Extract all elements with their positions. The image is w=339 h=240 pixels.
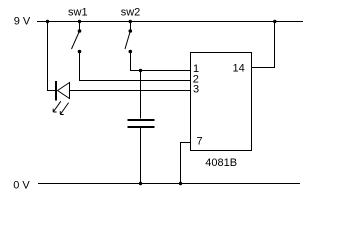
svg-text:sw2: sw2 [121,7,141,19]
wire IC pin 7 to 0V rail [181,143,191,184]
svg-text:14: 14 [233,63,245,75]
svg-text:sw1: sw1 [68,7,88,19]
capacitor bottom plate [128,126,155,128]
wire 9V rail to sw2 top contact [130,22,132,32]
wire 9V top rail [37,21,303,23]
switch sw1 bottom contact [78,50,82,54]
svg-text:0 V: 0 V [13,180,30,192]
wire sw2 to IC pin 1 [131,52,191,71]
svg-text:9 V: 9 V [14,15,31,27]
wire sw1 to IC pin 2 [80,52,191,81]
LED emission arrow 1 [53,101,61,112]
switch sw2 top contact [129,29,133,33]
switch sw2 bottom contact [129,50,133,54]
capacitor top plate [128,119,155,121]
node junction dot 0V rail / pin 7 wire [179,182,182,185]
wire LED branch drop from 9V rail [48,22,56,91]
node junction dot 9V rail / LED branch [46,20,49,23]
LED cathode bar [55,81,57,101]
wire 9V rail to sw1 top contact [79,22,81,32]
wire IC pin 14 to 9V rail [252,22,275,68]
node junction dot 0V rail / capacitor [139,182,142,185]
LED emission arrow 2 [60,103,68,115]
IC 4081B body [191,53,252,151]
svg-text:7: 7 [197,136,203,148]
wire 0V bottom rail [38,183,300,185]
svg-text:4081B: 4081B [205,157,237,169]
node junction dot pin1 wire / capacitor [139,69,142,72]
wire capacitor bottom lead to 0V [140,128,142,184]
switch sw1 top contact [78,29,82,33]
svg-text:3: 3 [193,84,199,96]
wire capacitor top lead [140,71,142,119]
switch sw2 lever [125,31,130,49]
node junction dot 9V rail / sw1 [78,20,81,23]
LED triangle [58,83,70,99]
node junction dot 9V rail / sw2 [129,20,132,23]
node junction dot 9V rail / pin 14 wire [273,20,276,23]
wire LED to IC pin 3 [70,90,191,92]
switch sw1 lever [72,31,80,49]
